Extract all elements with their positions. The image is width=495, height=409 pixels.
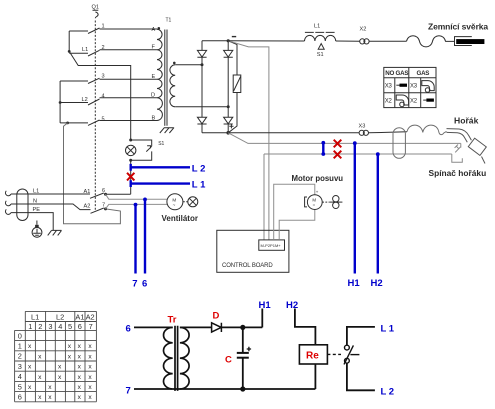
svg-text:GAS: GAS: [417, 70, 430, 77]
red cut mark wire H2: [334, 151, 342, 159]
diode V1: [197, 50, 206, 57]
node lamp top: [129, 139, 132, 142]
wire L1 mains: [11, 193, 90, 195]
cable squiggle to clamp: [407, 36, 455, 47]
transformer core: [164, 30, 166, 126]
switch Q1 pole 1: [69, 24, 104, 34]
svg-text:2: 2: [38, 322, 42, 331]
wire pole5 to tap B: [100, 120, 158, 122]
svg-text:5: 5: [68, 322, 72, 331]
svg-text:T1: T1: [166, 18, 172, 24]
thermal switch S1 branch: [131, 140, 165, 160]
svg-text:F: F: [152, 45, 156, 51]
switch Q1 pole 4: [60, 94, 105, 106]
svg-text:L1: L1: [33, 189, 39, 195]
bottom rail: [173, 388, 316, 390]
svg-text:Q1: Q1: [92, 5, 99, 11]
wire N mains: [11, 204, 91, 210]
sensor S1 arrow: [318, 44, 324, 50]
mains cable hooks: [5, 191, 11, 215]
svg-text:H2: H2: [286, 300, 298, 311]
wire contact to L2: [347, 363, 375, 390]
svg-text:6: 6: [142, 279, 147, 290]
svg-text:L 2: L 2: [192, 163, 206, 174]
torch cable squiggle: [407, 125, 447, 134]
svg-text:M-P2P1M+: M-P2P1M+: [261, 243, 282, 248]
wire relay to rail: [314, 364, 316, 389]
wire X3 to torch: [369, 132, 408, 133]
gas table: [384, 67, 436, 107]
wire secondary bottom to bridge: [175, 106, 228, 108]
tap A label: [152, 27, 161, 33]
switch Q1 pole 2: [69, 45, 104, 56]
svg-text:D: D: [151, 93, 155, 99]
transformer T1 secondary winding: [170, 65, 175, 107]
label CONTROL BOARD: [222, 263, 273, 269]
wire 6 to Tr: [134, 326, 173, 328]
cable bundle oval: [393, 128, 405, 159]
svg-text:0: 0: [18, 331, 22, 340]
wire to H1: [261, 309, 263, 328]
wire motor- to board: [279, 210, 315, 240]
svg-text:1: 1: [18, 342, 22, 351]
feed motor M: [305, 190, 323, 210]
blue jumper between torch wires: [322, 142, 324, 155]
fan shaft dashed: [183, 201, 188, 203]
svg-text:Re: Re: [306, 351, 319, 362]
svg-text:X3: X3: [410, 84, 418, 90]
Q1 mechanism dashed line: [94, 21, 96, 211]
label L2 out: [381, 387, 395, 398]
SELECTOR-TABLE: [15, 311, 97, 401]
label H1: [259, 300, 272, 311]
svg-text:H1: H1: [259, 300, 272, 311]
connector X3: [359, 124, 369, 136]
wire pole3 to tap E: [100, 78, 158, 80]
relay Re box: [299, 345, 327, 364]
wire pole2 to tap F: [100, 49, 158, 51]
svg-text:L2: L2: [56, 312, 64, 321]
svg-text:NO GAS: NO GAS: [385, 70, 408, 77]
wire contact6 to fan: [106, 194, 167, 199]
aux transformer secondary: [180, 327, 189, 389]
svg-text:3: 3: [102, 74, 105, 80]
plug symbol cell NOGAS X3: [396, 84, 407, 87]
svg-text:C: C: [225, 354, 232, 365]
svg-text:H1: H1: [348, 278, 361, 289]
control board connector: [259, 240, 285, 250]
svg-text:X3: X3: [359, 124, 366, 130]
svg-text:7: 7: [132, 279, 137, 290]
svg-text:3: 3: [48, 322, 52, 331]
svg-text:H2: H2: [371, 278, 383, 289]
MAIN-SCHEMATIC: [5, 5, 488, 290]
tap F label: [152, 45, 156, 51]
rectifier bridge left leg: [201, 41, 203, 51]
svg-text:X3: X3: [385, 84, 393, 90]
wire pole1 to tap A: [100, 28, 158, 30]
svg-text:S1: S1: [317, 52, 324, 58]
wire DC plus to torch connector: [228, 132, 359, 134]
switch Q1 pole 3: [60, 74, 105, 84]
svg-text:D: D: [213, 311, 220, 322]
svg-text:Ventilátor: Ventilátor: [162, 214, 198, 223]
svg-text:Motor posuvu: Motor posuvu: [292, 174, 344, 183]
label H1: [348, 278, 361, 289]
svg-text:L1: L1: [82, 47, 88, 53]
contactor A2: [84, 202, 108, 213]
gas elbow cell NOGAS X2: [396, 95, 408, 105]
wire DC minus to control board: [228, 41, 269, 240]
diode V3: [224, 50, 233, 57]
svg-text:N: N: [33, 199, 37, 205]
svg-text:5: 5: [18, 382, 22, 391]
aux transformer primary: [164, 327, 173, 389]
svg-text:L 1: L 1: [192, 180, 206, 191]
blue wire H1: [354, 143, 356, 274]
node cap top: [240, 325, 245, 330]
inductor L1 output choke: [305, 24, 336, 42]
label L2 blue: [192, 163, 206, 174]
svg-text:Zemnící svěrka: Zemnící svěrka: [428, 22, 488, 32]
svg-text:6: 6: [78, 322, 82, 331]
bridge bottom rail: [202, 132, 228, 134]
node bus2 a: [59, 101, 62, 104]
wire choke to X2: [228, 40, 360, 43]
switch Q1 label: [92, 5, 99, 11]
ground chassis at core: [160, 128, 174, 133]
svg-text:7: 7: [89, 322, 93, 331]
svg-text:L 2: L 2: [381, 387, 395, 398]
node secondary-top / bridge: [201, 63, 204, 66]
rectifier bridge right leg: [227, 41, 229, 51]
wire 7 to Tr: [134, 388, 173, 390]
svg-text:7: 7: [102, 202, 105, 208]
svg-text:Hořák: Hořák: [454, 116, 479, 126]
wire PE mains: [11, 213, 53, 231]
tap B label: [152, 115, 156, 121]
secondary polarity dot: [173, 62, 176, 65]
control board box: [217, 230, 289, 272]
svg-text:X2: X2: [360, 27, 367, 33]
AUX-CIRCUIT: [126, 300, 395, 398]
capacitor C: [237, 327, 251, 389]
torch wire stickout: [482, 157, 486, 164]
node lamp bottom: [129, 159, 132, 162]
svg-text:A1: A1: [75, 312, 84, 321]
relay actuation dashed: [327, 353, 341, 355]
blue wire H2: [377, 154, 379, 273]
wire motor+ to board: [274, 184, 315, 240]
wire L2 return bus to A2: [64, 123, 121, 224]
wire control board to torch switch lower: [264, 153, 452, 155]
svg-text:2: 2: [18, 352, 22, 361]
tap E label: [152, 74, 156, 80]
earth tail from cable: [32, 221, 42, 238]
node DC plus: [226, 131, 230, 135]
torch nozzle: [468, 138, 486, 155]
svg-text:Tr: Tr: [168, 315, 177, 326]
node secondary-bottom / bridge: [227, 105, 230, 108]
node bus2 b: [66, 122, 69, 125]
wire secondary to diode: [180, 326, 212, 328]
blue wire terminal 6: [144, 199, 146, 273]
earth electrode symbol: [32, 227, 42, 237]
label C: [225, 354, 232, 365]
transformer T1 primary winding: [157, 29, 162, 120]
svg-text:4: 4: [102, 94, 105, 100]
wire H2 to relay: [295, 309, 316, 345]
wire plus branch to torch switch: [228, 133, 461, 144]
relay contact: [344, 345, 359, 364]
svg-text:6: 6: [126, 323, 131, 334]
label L1 out: [381, 323, 395, 334]
wire bus L2 feed (switch 3-5 inputs): [59, 81, 61, 123]
switch Q1 pole 5: [60, 116, 105, 125]
fan motor M: [167, 194, 183, 210]
Q1 actuator symbol: [93, 10, 99, 18]
svg-text:=: =: [313, 203, 316, 208]
svg-text:5: 5: [102, 116, 105, 122]
svg-text:A2: A2: [86, 312, 95, 321]
svg-text:S1: S1: [158, 141, 164, 147]
bridge top rail: [202, 40, 228, 42]
wire lamp vertical lower: [130, 160, 132, 194]
gas elbow cell GAS X3: [422, 81, 434, 91]
label 6: [142, 279, 147, 290]
contactor A1: [84, 188, 108, 198]
plus sign: [229, 124, 233, 128]
svg-text:A1: A1: [84, 189, 91, 195]
diode V4: [224, 117, 233, 124]
node DC minus: [227, 39, 230, 42]
tap D label: [151, 93, 155, 99]
diode D: [212, 323, 222, 332]
wire pole4 to tap D: [100, 97, 158, 99]
label terminal 7: [126, 385, 131, 396]
label Horak: [454, 116, 479, 126]
label D: [213, 311, 220, 322]
svg-text:E: E: [152, 74, 156, 80]
wire contact6 to lamp riser: [106, 193, 131, 195]
blue wire tap L1: [131, 180, 190, 187]
diode V2: [197, 117, 206, 124]
svg-text:~: ~: [173, 202, 176, 207]
wire L1 feed riser: [69, 51, 131, 140]
torch body: [447, 129, 472, 143]
label L1 blue: [192, 180, 206, 191]
label 7: [132, 279, 137, 290]
lamp indicator: [126, 145, 136, 155]
svg-text:X2: X2: [385, 99, 393, 105]
label Spinac horaku: [429, 168, 487, 178]
table grid: [15, 311, 97, 401]
svg-text:A2: A2: [84, 203, 91, 209]
blue wire terminal 7: [134, 205, 136, 274]
wire bus L1 feed (switch 1-2 inputs): [68, 31, 70, 51]
minus sign: [232, 36, 236, 38]
wire diode to node: [221, 326, 262, 328]
wire secondary top to bridge: [175, 64, 202, 66]
label H2: [371, 278, 383, 289]
label Zemnici sverka: [428, 22, 488, 32]
red cut mark lamp riser: [127, 173, 134, 181]
svg-text:7: 7: [126, 385, 131, 396]
label Motor posuvu: [292, 174, 344, 183]
svg-text:A: A: [152, 27, 156, 33]
svg-text:X2: X2: [410, 99, 418, 105]
ground clamp: [455, 37, 485, 46]
red cut mark wire H1: [334, 140, 342, 148]
svg-text:L 1: L 1: [381, 323, 395, 334]
node bus1: [68, 50, 71, 53]
svg-text:4: 4: [18, 372, 22, 381]
wire X2 to clamp cable: [369, 40, 406, 42]
svg-text:4: 4: [58, 322, 62, 331]
svg-text:6: 6: [18, 393, 22, 402]
label Ventilator: [162, 214, 198, 223]
svg-text:L1: L1: [314, 24, 320, 30]
transformer T1 label: [166, 18, 172, 24]
label H2: [286, 300, 298, 311]
torch switch: [452, 143, 463, 162]
fan blade symbol: [188, 197, 198, 207]
svg-text:Spínač hořáku: Spínač hořáku: [429, 168, 487, 178]
varistor RU1: [228, 41, 241, 133]
ground chassis PE: [48, 230, 62, 235]
svg-text:1: 1: [28, 322, 32, 331]
blue wire tap L2: [131, 164, 190, 171]
aux transformer core: [175, 326, 178, 391]
svg-text:B: B: [152, 115, 156, 121]
svg-text:3: 3: [18, 362, 22, 371]
connector X2: [360, 27, 370, 45]
label Tr: [168, 315, 177, 326]
svg-text:PE: PE: [33, 207, 41, 213]
svg-text:CONTROL BOARD: CONTROL BOARD: [222, 263, 273, 269]
label terminal 6: [126, 323, 131, 334]
svg-text:+: +: [316, 190, 319, 195]
svg-text:L1: L1: [31, 312, 39, 321]
wire contact to L1: [347, 327, 375, 345]
node cap bottom: [240, 386, 245, 391]
feed rollers: [322, 196, 342, 209]
plug symbol cell GAS X2: [423, 99, 434, 102]
mains cable sheath oval: [17, 189, 28, 221]
wire contact7 to fan: [106, 204, 168, 209]
